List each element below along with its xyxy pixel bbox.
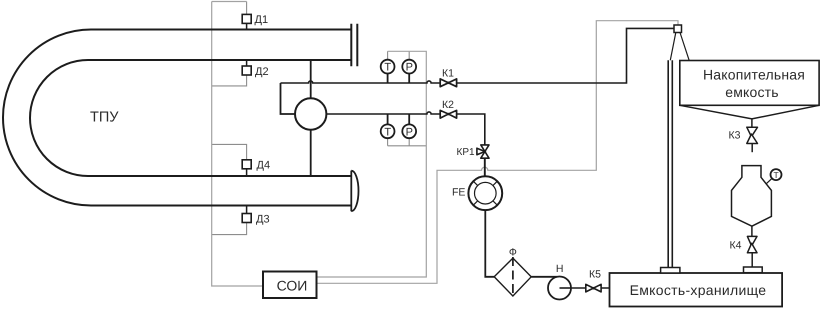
svg-text:ТПУ: ТПУ bbox=[90, 110, 119, 126]
svg-text:Д3: Д3 bbox=[256, 214, 270, 226]
svg-text:Р: Р bbox=[406, 62, 413, 74]
svg-text:Т: Т bbox=[773, 170, 778, 180]
svg-text:Р: Р bbox=[406, 126, 413, 138]
svg-text:Д2: Д2 bbox=[255, 66, 269, 78]
svg-text:СОИ: СОИ bbox=[277, 278, 308, 294]
svg-text:Д1: Д1 bbox=[255, 14, 269, 26]
svg-text:К1: К1 bbox=[442, 68, 454, 80]
svg-text:КР1: КР1 bbox=[457, 147, 475, 158]
svg-text:К5: К5 bbox=[589, 268, 601, 280]
svg-text:К2: К2 bbox=[442, 99, 454, 111]
svg-text:Т: Т bbox=[384, 62, 391, 74]
svg-text:Накопительная: Накопительная bbox=[703, 66, 805, 82]
svg-text:Емкость-хранилище: Емкость-хранилище bbox=[630, 282, 767, 298]
svg-text:Ф: Ф bbox=[509, 247, 517, 259]
svg-text:К3: К3 bbox=[729, 130, 741, 142]
svg-text:К4: К4 bbox=[730, 240, 742, 252]
svg-text:емкость: емкость bbox=[725, 84, 779, 100]
svg-text:Д4: Д4 bbox=[257, 159, 271, 171]
svg-text:Н: Н bbox=[556, 263, 564, 275]
svg-text:FE: FE bbox=[452, 186, 465, 198]
svg-text:Т: Т bbox=[384, 126, 391, 138]
